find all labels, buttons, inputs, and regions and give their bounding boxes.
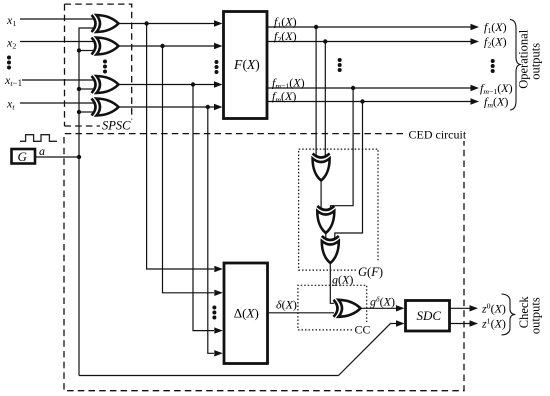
svg-text:Δ(X): Δ(X) <box>234 306 259 321</box>
vdots inside SPSC <box>103 60 107 74</box>
svg-text:outputs: outputs <box>529 43 543 80</box>
wire f2 output <box>267 41 471 43</box>
wire xt-1 <box>22 79 94 81</box>
arrow z1 <box>470 320 479 326</box>
wire G to a-junction <box>36 156 80 158</box>
svg-text:CED circuit: CED circuit <box>409 128 467 142</box>
junction tap row1 <box>144 21 148 25</box>
junction tap fm <box>360 99 364 103</box>
svg-text:G: G <box>18 149 28 164</box>
wire tap2 down to Delta <box>163 46 215 293</box>
wire g(X) chain output to CC <box>330 263 334 303</box>
junction tap f2 <box>323 39 327 43</box>
junction a to XOR2 <box>77 48 81 52</box>
wire chain XOR A to B <box>320 180 322 209</box>
arrow fm-1 out <box>471 85 480 91</box>
junction tap row3 <box>191 82 195 86</box>
wire fm-1 tap down to chain XOR B <box>331 88 354 209</box>
vdots left margin <box>7 56 11 70</box>
wire XOR4 output to F(X) <box>119 106 216 108</box>
block Delta(X) <box>224 263 268 364</box>
arrow into Delta input 2 <box>214 290 223 296</box>
arrow into F input 3 <box>214 81 223 87</box>
XOR gate 4 <box>92 99 119 116</box>
svg-text:G(F): G(F) <box>358 265 383 279</box>
wire tap1 down to Delta <box>147 24 214 270</box>
junction a to XOR3 <box>77 87 81 91</box>
stub a to XOR4 <box>79 111 94 113</box>
arrow f1 out <box>471 24 480 30</box>
vdots left of Delta <box>212 306 216 320</box>
block SDC <box>406 301 450 332</box>
SPSC dashed box <box>65 4 132 126</box>
operational outputs brace <box>510 20 521 111</box>
svg-text:SPSC: SPSC <box>102 119 131 133</box>
wire f2 tap down to chain XOR A <box>324 42 326 157</box>
chain XOR gate A <box>313 154 330 181</box>
wire fm tap down to chain XOR C <box>335 102 363 239</box>
arrow into SDC input 1 <box>396 305 405 311</box>
wire a diagonal to SDC <box>339 324 398 376</box>
wire a vertical trunk <box>79 28 94 376</box>
XOR gate 1 <box>92 15 119 32</box>
junction tap f1 <box>314 25 318 29</box>
vdots right of F <box>338 58 342 72</box>
chain XOR gate C <box>322 236 339 263</box>
svg-text:z1(X): z1(X) <box>481 316 506 330</box>
svg-text:outputs: outputs <box>529 297 543 334</box>
block F(X) <box>224 12 268 119</box>
CED dashed box <box>64 134 464 391</box>
wire tap3 down to Delta <box>193 85 214 331</box>
wire g^delta to SDC <box>361 307 398 309</box>
svg-text:g(X): g(X) <box>332 273 353 287</box>
arrow fm out <box>471 98 480 104</box>
arrow into F input 2 <box>214 43 223 49</box>
junction a to XOR4 <box>77 110 81 114</box>
wire z1 output <box>450 323 471 325</box>
wire z0 output <box>450 307 471 309</box>
arrow into SDC input 2 <box>396 320 405 326</box>
clock waveform <box>20 135 57 142</box>
stub a to XOR2 <box>79 50 94 52</box>
check outputs brace <box>502 294 516 335</box>
svg-text:z0(X): z0(X) <box>481 301 506 315</box>
wire XOR2 output to F(X) <box>119 45 216 47</box>
arrow into F input 4 <box>214 104 223 110</box>
arrow z0 <box>470 305 479 311</box>
wire XOR1 output to F(X) <box>119 23 216 25</box>
clock generator G box <box>12 149 36 164</box>
junction tap row2 <box>160 44 164 48</box>
stub a to XOR3 <box>79 88 94 90</box>
XOR gate 3 <box>92 76 119 93</box>
G(F) dotted box <box>299 149 378 270</box>
arrow into F input 1 <box>214 20 223 26</box>
wire xt <box>20 102 94 104</box>
junction tap row4 <box>206 105 210 109</box>
svg-text:(X): (X) <box>243 57 260 72</box>
wire f1 output <box>267 26 471 28</box>
arrow f2 out <box>471 38 480 44</box>
chain XOR gate B <box>317 206 334 233</box>
XOR gate 2 <box>92 38 119 55</box>
wire XOR3 output to F(X) <box>119 84 216 86</box>
vdots far right <box>491 59 495 73</box>
junction a <box>77 155 81 159</box>
svg-text:a: a <box>39 144 45 158</box>
wire f1 tap down to chain XOR A <box>315 27 317 156</box>
svg-text:SDC: SDC <box>417 308 442 323</box>
wire delta(X) Delta to CC <box>268 312 334 314</box>
CC dotted box <box>298 285 367 330</box>
wire a bottom rail <box>79 375 339 377</box>
XOR gate CC <box>334 300 361 317</box>
arrow into Delta input 4 <box>214 350 223 356</box>
junction tap fm-1 <box>351 86 355 90</box>
vdots left of F <box>215 60 219 74</box>
svg-text:F: F <box>233 57 243 72</box>
svg-text:δ(X): δ(X) <box>276 298 297 312</box>
wire fm-1 output <box>267 87 471 89</box>
svg-text:CC: CC <box>355 323 371 337</box>
arrow into Delta input 3 <box>214 327 223 333</box>
arrow into Delta input 1 <box>214 266 223 272</box>
wire tap4 down to Delta <box>208 107 214 353</box>
wire x2 <box>20 41 94 43</box>
wire fm output <box>267 101 471 103</box>
wire x1 <box>20 18 94 20</box>
wire chain XOR B to C <box>325 233 327 239</box>
svg-text:gδ(X): gδ(X) <box>370 294 395 308</box>
